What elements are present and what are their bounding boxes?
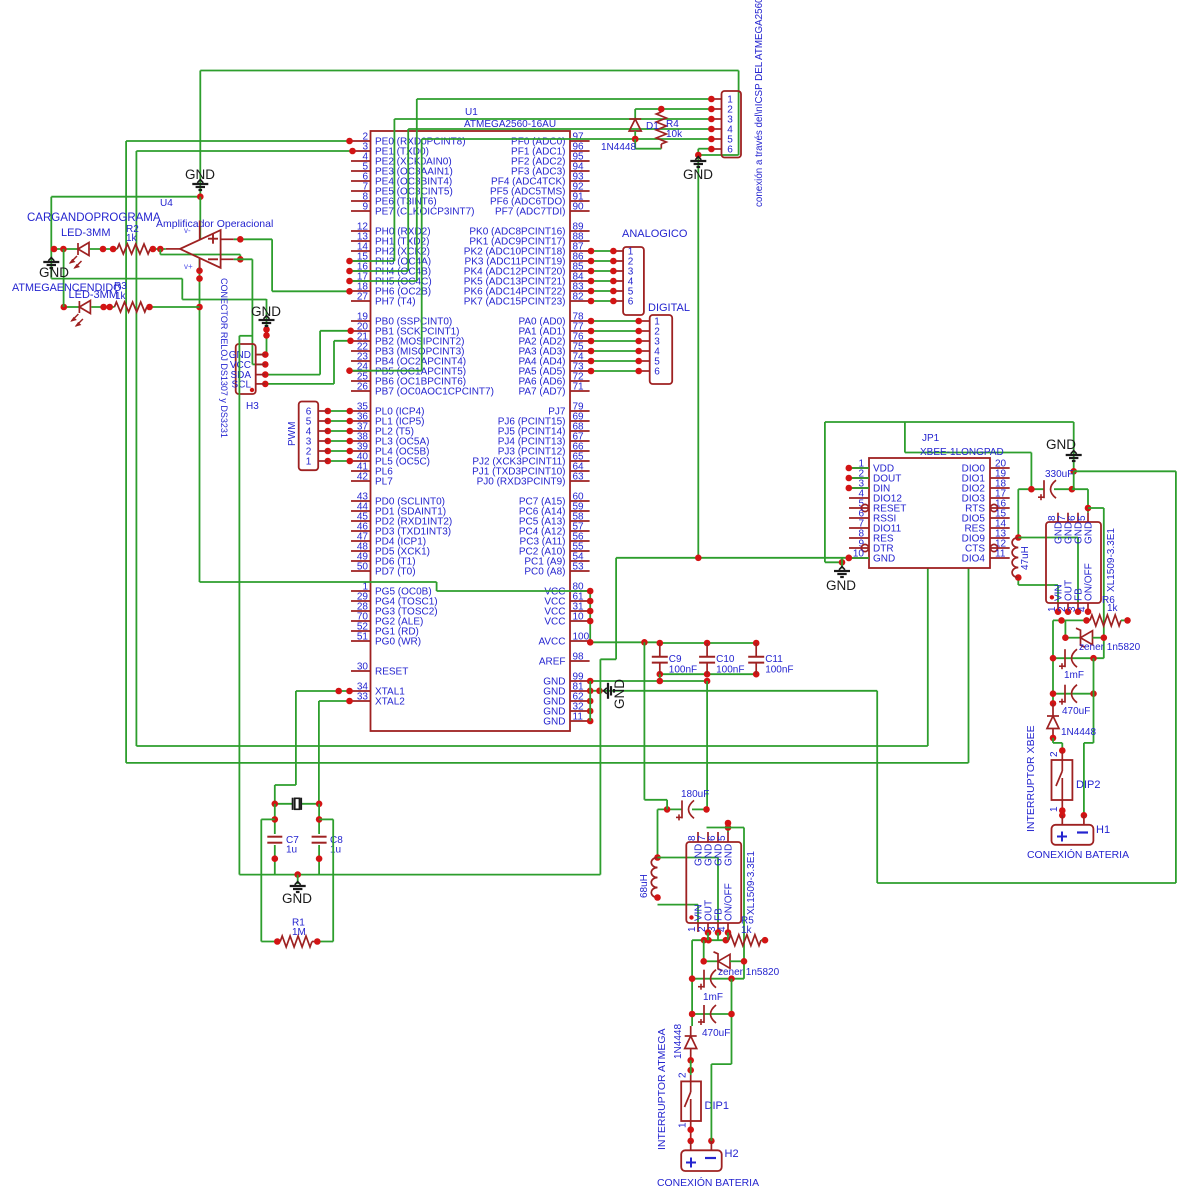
svg-text:PC0 (A8): PC0 (A8) [524, 567, 565, 578]
svg-text:GND: GND [826, 578, 856, 593]
svg-text:CONEXIÓN BATERIA: CONEXIÓN BATERIA [1027, 848, 1129, 861]
svg-text:90: 90 [573, 202, 585, 213]
svg-text:GND: GND [282, 891, 312, 906]
svg-text:LED-3MM: LED-3MM [61, 227, 111, 239]
svg-text:CONECTOR RELOJ DS1307 y DS3231: CONECTOR RELOJ DS1307 y DS3231 [219, 278, 229, 438]
svg-text:GND: GND [612, 679, 627, 709]
svg-text:470uF: 470uF [1062, 706, 1090, 717]
svg-text:PD7 (T0): PD7 (T0) [375, 567, 416, 578]
svg-text:1N4448: 1N4448 [1061, 727, 1096, 738]
svg-text:1k: 1k [115, 291, 127, 302]
svg-text:ON/OFF: ON/OFF [1084, 563, 1095, 601]
svg-text:GND: GND [185, 167, 215, 182]
svg-text:v-: v- [184, 226, 191, 235]
svg-text:PB7 (OC0AOC1CPCINT7): PB7 (OC0AOC1CPCINT7) [375, 387, 494, 398]
svg-text:42: 42 [357, 472, 369, 483]
svg-text:PE7 (CLKOICP3INT7): PE7 (CLKOICP3INT7) [375, 207, 474, 218]
svg-text:INTERRUPTOR XBEE: INTERRUPTOR XBEE [1025, 725, 1037, 832]
svg-text:H3: H3 [246, 401, 259, 412]
svg-text:CONEXIÓN BATERIA: CONEXIÓN BATERIA [657, 1176, 759, 1189]
svg-text:XBEE-1LONGPAD: XBEE-1LONGPAD [920, 447, 1004, 458]
svg-text:53: 53 [573, 562, 585, 573]
svg-text:47uH: 47uH [1020, 546, 1031, 570]
svg-text:ON/OFF: ON/OFF [724, 883, 735, 921]
svg-text:GND: GND [683, 167, 713, 182]
svg-text:71: 71 [573, 382, 585, 393]
svg-text:GND: GND [543, 717, 565, 728]
svg-text:VCC: VCC [544, 617, 565, 628]
svg-text:1mF: 1mF [1064, 670, 1084, 681]
svg-text:98: 98 [573, 652, 585, 663]
svg-text:PK7 (ADC15PCINT23): PK7 (ADC15PCINT23) [464, 297, 566, 308]
svg-text:1: 1 [306, 457, 312, 468]
svg-text:33: 33 [357, 692, 369, 703]
svg-text:PJ0 (RXD3PCINT9): PJ0 (RXD3PCINT9) [477, 477, 566, 488]
svg-text:50: 50 [357, 562, 369, 573]
svg-text:AREF: AREF [539, 657, 566, 668]
svg-text:PH7 (T4): PH7 (T4) [375, 297, 416, 308]
svg-text:PA7 (AD7): PA7 (AD7) [518, 387, 565, 398]
svg-text:68uH: 68uH [639, 874, 650, 898]
svg-text:9: 9 [362, 202, 368, 213]
svg-text:6: 6 [727, 145, 733, 156]
svg-text:2: 2 [678, 1072, 689, 1078]
svg-text:1M: 1M [292, 927, 306, 938]
svg-text:conexión a través del\nICSP DE: conexión a través del\nICSP DEL ATMEGA25… [754, 0, 765, 207]
svg-text:6: 6 [628, 297, 634, 308]
svg-text:H2: H2 [725, 1148, 739, 1160]
svg-text:C9: C9 [669, 654, 682, 665]
svg-text:v+: v+ [184, 262, 193, 271]
svg-text:1u: 1u [330, 845, 341, 856]
svg-text:470uF: 470uF [702, 1028, 730, 1039]
svg-text:10: 10 [573, 612, 585, 623]
svg-text:GND: GND [724, 844, 735, 866]
svg-text:82: 82 [573, 292, 585, 303]
svg-text:1k: 1k [1107, 603, 1119, 614]
svg-text:GND: GND [39, 265, 69, 280]
svg-text:1u: 1u [286, 845, 297, 856]
svg-text:5: 5 [1077, 515, 1088, 521]
svg-text:U4: U4 [160, 198, 173, 209]
svg-text:U1: U1 [465, 107, 478, 118]
svg-text:SCL: SCL [232, 379, 252, 390]
svg-text:1k: 1k [741, 925, 753, 936]
svg-text:330uF: 330uF [1045, 469, 1073, 480]
svg-text:100: 100 [573, 632, 590, 643]
svg-text:zener 1n5820: zener 1n5820 [1079, 642, 1141, 653]
svg-text:XL1509-3.3E1: XL1509-3.3E1 [1106, 528, 1117, 592]
svg-text:10k: 10k [666, 129, 683, 140]
svg-text:11: 11 [573, 712, 584, 723]
svg-text:DIGITAL: DIGITAL [648, 302, 690, 314]
svg-text:PWM: PWM [287, 422, 298, 446]
svg-text:6: 6 [654, 367, 660, 378]
svg-text:CARGANDOPROGRAMA: CARGANDOPROGRAMA [27, 212, 161, 224]
svg-text:1mF: 1mF [703, 992, 723, 1003]
svg-text:100nF: 100nF [716, 665, 744, 676]
svg-text:GND: GND [873, 554, 895, 565]
svg-text:PG0 (WR): PG0 (WR) [375, 637, 421, 648]
svg-text:H1: H1 [1096, 824, 1110, 836]
svg-text:100nF: 100nF [765, 665, 793, 676]
svg-text:30: 30 [357, 662, 369, 673]
svg-text:C11: C11 [765, 654, 783, 665]
svg-text:XL1509-3.3E1: XL1509-3.3E1 [746, 851, 757, 915]
svg-text:4: 4 [1077, 606, 1088, 612]
svg-text:DIO4: DIO4 [962, 554, 986, 565]
svg-text:PF7 (ADC7TDI): PF7 (ADC7TDI) [495, 207, 566, 218]
svg-text:11: 11 [995, 549, 1006, 560]
svg-text:JP1: JP1 [922, 433, 940, 444]
svg-text:1N4448: 1N4448 [601, 142, 636, 153]
svg-text:27: 27 [357, 292, 369, 303]
svg-text:63: 63 [573, 472, 585, 483]
svg-text:ANALOGICO: ANALOGICO [622, 228, 688, 240]
svg-text:XTAL2: XTAL2 [375, 697, 405, 708]
svg-text:1: 1 [1049, 806, 1060, 812]
svg-text:100nF: 100nF [669, 665, 697, 676]
svg-text:zener 1n5820: zener 1n5820 [718, 967, 780, 978]
svg-text:C10: C10 [716, 654, 735, 665]
svg-text:180uF: 180uF [681, 789, 709, 800]
svg-text:26: 26 [357, 382, 369, 393]
svg-text:1: 1 [678, 1122, 689, 1128]
svg-text:2: 2 [1049, 751, 1060, 757]
svg-text:5: 5 [717, 835, 728, 841]
svg-text:INTERRUPTOR ATMEGA: INTERRUPTOR ATMEGA [656, 1028, 668, 1150]
svg-text:LED-3MM: LED-3MM [69, 289, 119, 301]
svg-text:Amplificador Operacional: Amplificador Operacional [156, 218, 273, 230]
svg-text:1N4448: 1N4448 [673, 1024, 684, 1059]
svg-text:PL7: PL7 [375, 477, 393, 488]
svg-text:DIP1: DIP1 [705, 1100, 729, 1112]
svg-text:51: 51 [357, 632, 369, 643]
svg-text:GND: GND [1046, 437, 1076, 452]
svg-text:RESET: RESET [375, 667, 408, 678]
svg-text:GND: GND [251, 304, 281, 319]
svg-text:D1: D1 [646, 121, 659, 132]
svg-text:DIP2: DIP2 [1076, 779, 1100, 791]
svg-text:AVCC: AVCC [538, 637, 565, 648]
svg-text:GND: GND [1084, 522, 1095, 544]
